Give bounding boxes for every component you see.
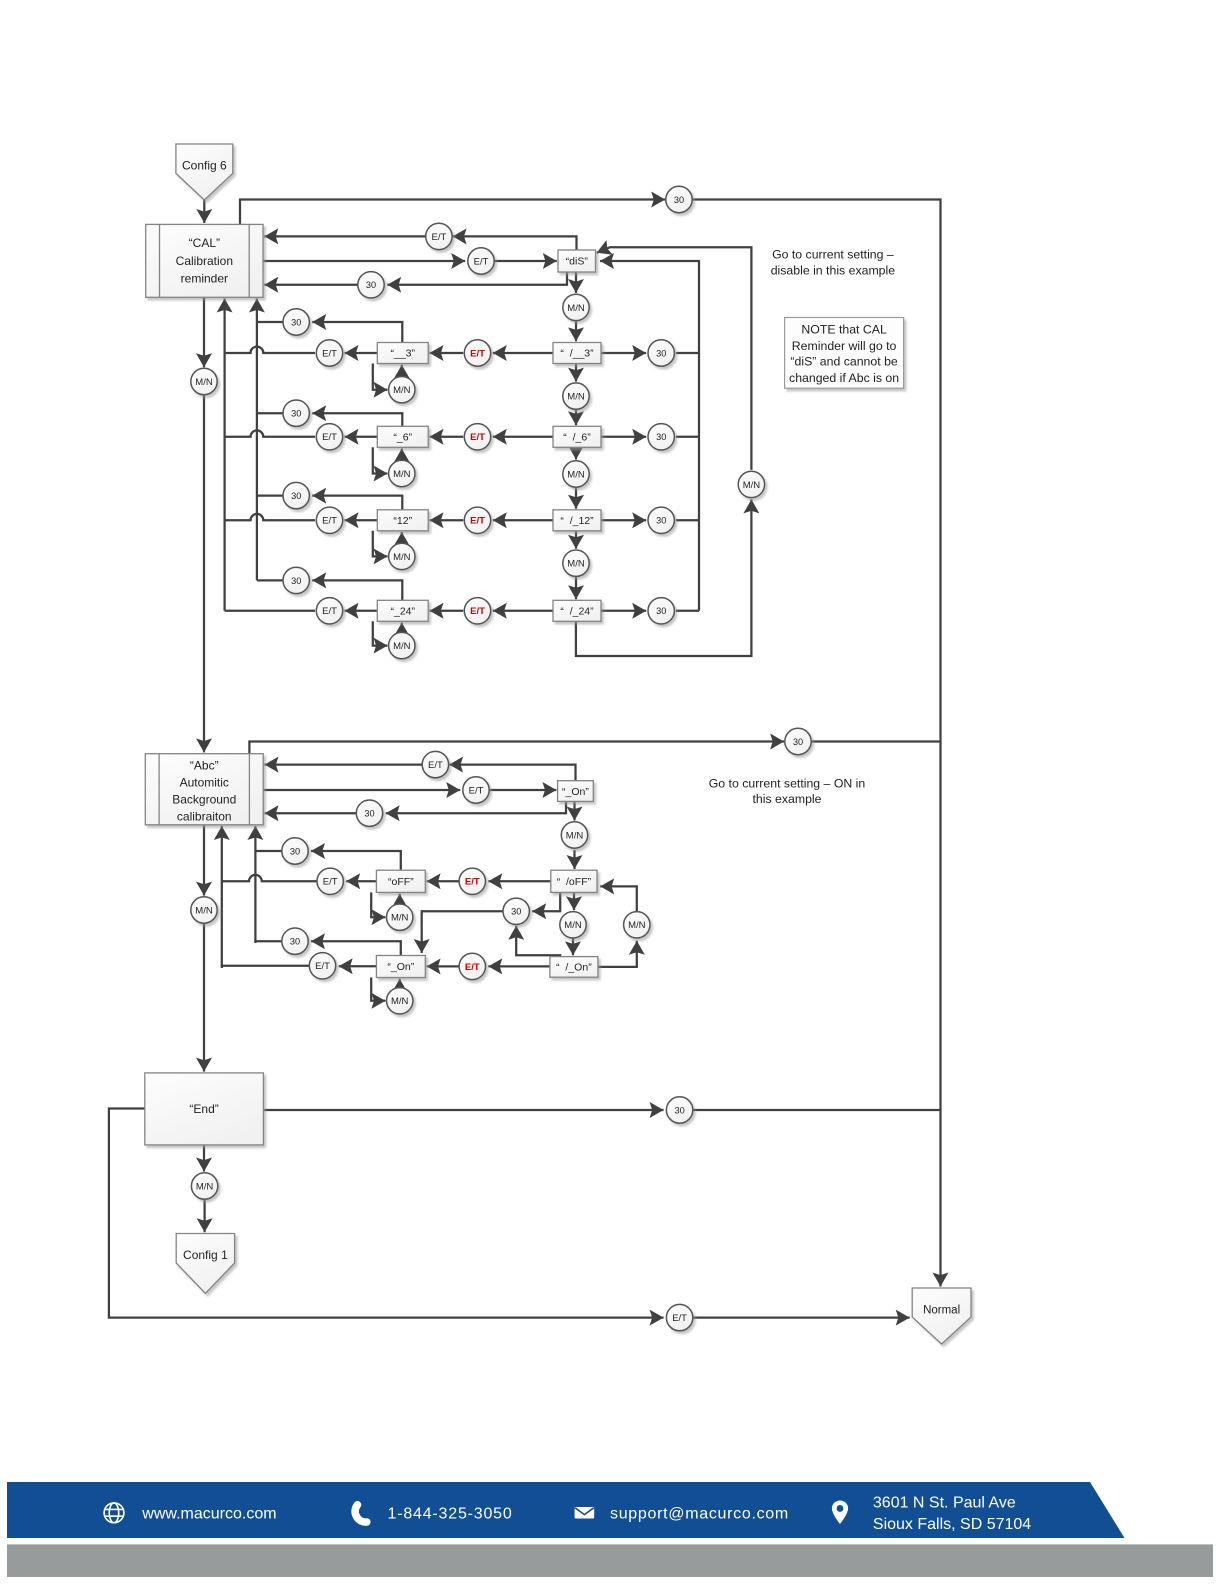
- wire red E/T into box “__3” row1: [430, 352, 464, 354]
- wire 30 right, down right margin to Normal: [693, 200, 941, 1287]
- state box "_24": [377, 600, 428, 621]
- annotation: go to current setting (ON): [709, 776, 866, 805]
- wire 30 collector up into CAL bottom: [256, 299, 258, 581]
- svg-text:“Abc”: “Abc”: [190, 758, 219, 772]
- wire E/T circle into Normal: [693, 1316, 910, 1318]
- wire E/T circle into diS: [495, 260, 557, 262]
- svg-text:E/T: E/T: [465, 962, 480, 973]
- svg-text:calibraiton: calibraiton: [177, 810, 232, 824]
- wire 30 circle to right margin line: [693, 1109, 940, 1111]
- wire 30 circle into CAL right edge: [264, 284, 357, 286]
- svg-text:30: 30: [656, 516, 666, 526]
- wire M/N down into /_On box: [572, 938, 574, 955]
- node E/T (Abc to _On): [463, 777, 489, 803]
- wire 30 circle row3 to 30 collector: [257, 494, 283, 496]
- svg-text:30: 30: [656, 348, 666, 358]
- svg-text:30: 30: [291, 409, 301, 419]
- wire /oFF to red E/T: [488, 880, 551, 882]
- node 30 row3 (timeout to CAL): [283, 482, 309, 508]
- footer mail icon: [575, 1507, 595, 1519]
- wire self M/N up into box “12” row3: [401, 532, 403, 543]
- wire 30 circle into Abc right edge: [265, 812, 357, 814]
- wire End right to 30 circle: [263, 1109, 663, 1111]
- wire box “12” top to 30 circle row3: [312, 496, 402, 510]
- footer gray bar: [7, 1544, 1213, 1577]
- svg-text:E/T: E/T: [432, 232, 447, 243]
- node E/T row2 (red, select): [464, 424, 490, 450]
- wire oFF hook to self M/N: [371, 892, 385, 917]
- node E/T (_On back to Abc): [422, 751, 448, 777]
- wire box “&#160;&#160;/__3” down to chain M/N row1: [575, 364, 577, 382]
- process box "CAL" Calibration reminder: [146, 224, 263, 297]
- svg-text:M/N: M/N: [567, 303, 585, 314]
- svg-text:Reminder will go to: Reminder will go to: [792, 339, 897, 353]
- node E/T (diS back to CAL): [426, 223, 452, 249]
- node 30 (Abc timeout to Normal): [785, 728, 811, 754]
- wire End bottom to M/N: [203, 1145, 205, 1172]
- node 30 (End timeout): [666, 1097, 692, 1123]
- wire box “&#160;&#160;/_24” to red E/T row4: [493, 610, 553, 612]
- svg-text:“End”: “End”: [189, 1102, 218, 1116]
- wire Abc top up-right to 30 (timeout): [249, 742, 784, 754]
- wire self M/N up into box “__3” row1: [401, 365, 403, 377]
- svg-text:Calibration: Calibration: [176, 254, 233, 268]
- wire box “__3” to E/T circle row1: [345, 352, 378, 354]
- svg-text:30: 30: [290, 937, 300, 947]
- node E/T (End to Normal): [666, 1304, 692, 1330]
- svg-text:M/N: M/N: [567, 392, 585, 403]
- svg-text:M/N: M/N: [628, 920, 646, 931]
- svg-text:M/N: M/N: [564, 920, 582, 931]
- wire chain M/N down to next box row2: [575, 487, 577, 509]
- wire oFF top to 30 circle: [311, 851, 401, 870]
- wire chain M/N down to next box row3: [575, 576, 577, 599]
- wire E/T collector up into CAL bottom: [223, 299, 225, 611]
- state box "_On" (top): [558, 781, 594, 802]
- node E/T (CAL to diS): [468, 248, 494, 274]
- svg-text:“diS”: “diS”: [566, 256, 589, 268]
- svg-text:E/T: E/T: [465, 877, 480, 888]
- node M/N (/_6 to /_12): [563, 461, 589, 487]
- svg-text:Config 6: Config 6: [182, 159, 227, 173]
- node self M/N row3: [389, 543, 415, 569]
- wire E/T circle into CAL right edge: [264, 235, 425, 237]
- wire box “&#160;&#160;/_6” down to chain M/N row2: [575, 447, 577, 459]
- process box "End": [145, 1073, 264, 1145]
- wire box “&#160;&#160;/_12” down to chain M/N row3: [575, 531, 577, 549]
- svg-text:E/T: E/T: [322, 606, 337, 617]
- svg-text:E/T: E/T: [672, 1313, 687, 1324]
- wire E/T collector up into Abc bottom: [221, 826, 223, 966]
- wire red E/T into _On box: [427, 965, 459, 967]
- svg-text:“__3”: “__3”: [390, 348, 415, 360]
- svg-text:E/T: E/T: [323, 877, 338, 888]
- wire Abc bottom down to M/N: [203, 825, 205, 896]
- wire oFF box to E/T circle: [346, 880, 376, 882]
- state box "12": [377, 510, 428, 531]
- wire box “12” hook to self M/N row3: [373, 531, 388, 557]
- wire E/T circle row1 to E/T collector (hop): [225, 347, 315, 353]
- wire self M/N up into _On box: [399, 979, 401, 988]
- node 30 row4 (timeout to diS): [648, 598, 674, 624]
- off-page connector Config 6: [176, 144, 233, 200]
- svg-text:NOTE that CAL: NOTE that CAL: [801, 322, 887, 336]
- wire box “_6” top to 30 circle row2: [312, 413, 402, 426]
- wire self M/N up into oFF box: [399, 894, 401, 904]
- wire chain M/N down to next box row1: [575, 409, 577, 425]
- svg-text:E/T: E/T: [474, 256, 489, 267]
- state box "diS": [558, 250, 596, 272]
- svg-text:30: 30: [674, 195, 684, 205]
- wire CAL top up-right to 30 (timeout): [240, 200, 665, 225]
- svg-text:Background: Background: [172, 793, 236, 807]
- wire M/N up and into diS top-right corner: [597, 247, 752, 470]
- svg-text:M/N: M/N: [393, 469, 411, 480]
- node E/T (lower _On to Abc): [309, 953, 335, 979]
- wire /_On right loop up to M/N: [598, 941, 637, 967]
- node M/N (/oFF to /_On): [560, 912, 586, 938]
- wire CAL out to E/T circle: [263, 260, 465, 262]
- svg-text:M/N: M/N: [566, 830, 584, 841]
- state box " /_12": [553, 510, 601, 531]
- svg-text:“oFF”: “oFF”: [388, 876, 414, 888]
- svg-text:E/T: E/T: [469, 785, 484, 796]
- svg-text:www.macurco.com: www.macurco.com: [141, 1505, 276, 1522]
- wire M/N up into /oFF right edge: [600, 886, 637, 911]
- svg-text:“ /__3”: “ /__3”: [560, 348, 594, 360]
- svg-text:M/N: M/N: [567, 469, 585, 480]
- wire Abc out to E/T circle: [263, 789, 460, 791]
- wire box “&#160;&#160;/_6” to red E/T row2: [493, 436, 553, 438]
- wire box “_24” top to 30 circle row4: [312, 580, 402, 600]
- state box "_On" (lower): [376, 956, 425, 978]
- state box "oFF": [376, 870, 425, 892]
- wire E/T circle to E/T collector corner: [222, 966, 309, 968]
- wire 30 circle row4 to 30 collector corner: [257, 579, 283, 581]
- svg-text:E/T: E/T: [470, 348, 485, 359]
- wire mid 30 into _On box top: [422, 911, 503, 953]
- state box " /oFF": [551, 870, 597, 892]
- svg-text:E/T: E/T: [470, 432, 485, 443]
- wire diS bottom hook to 30 circle: [387, 272, 567, 285]
- svg-text:E/T: E/T: [322, 516, 337, 527]
- node M/N (/_12 to /_24): [563, 550, 589, 576]
- svg-text:M/N: M/N: [195, 905, 213, 916]
- node 30 (diS timeout to CAL): [358, 272, 384, 298]
- wire box “&#160;&#160;/_12” to red E/T row3: [493, 519, 553, 521]
- node self M/N (lower _On): [387, 988, 413, 1014]
- svg-text:30: 30: [291, 491, 301, 501]
- wire box “&#160;&#160;/_24” to right 30 row4: [601, 610, 646, 612]
- node 30 (mid, to _On): [503, 898, 529, 924]
- svg-text:“ /_On”: “ /_On”: [556, 962, 592, 974]
- wire E/T circle into Abc right edge: [265, 763, 422, 765]
- wire red E/T into box “12” row3: [430, 519, 464, 521]
- node M/N (Abc to End): [191, 897, 217, 923]
- annotation: go to current setting (disable): [771, 247, 896, 277]
- wire M/N down into /oFF box: [573, 850, 575, 869]
- state box "_6": [377, 426, 428, 447]
- node E/T row4 (red, select): [464, 598, 490, 624]
- wire box “&#160;&#160;/_12” to right 30 row3: [601, 519, 646, 521]
- svg-text:M/N: M/N: [391, 913, 409, 924]
- svg-text:E/T: E/T: [322, 348, 337, 359]
- wire right 30 row2 to right collector: [676, 436, 699, 438]
- node M/N (CAL to Abc): [191, 368, 217, 394]
- wire E/T circle into _On box: [490, 789, 557, 791]
- node E/T row4 (to CAL): [316, 598, 342, 624]
- node 30 row2 (timeout to diS): [648, 424, 674, 450]
- svg-text:changed if Abc is on: changed if Abc is on: [789, 371, 899, 385]
- svg-text:“CAL”: “CAL”: [189, 236, 220, 250]
- node 30 (_On timeout to Abc): [356, 800, 382, 826]
- wire _On bottom hook to 30 circle: [386, 801, 566, 813]
- wire 30 circle to 30 collector corner: [255, 941, 281, 943]
- wire red E/T into box “_6” row2: [430, 436, 464, 438]
- wire 30 collector up into Abc bottom: [254, 826, 256, 941]
- svg-text:support@macurco.com: support@macurco.com: [610, 1505, 789, 1522]
- svg-text:Go to current setting – ON in: Go to current setting – ON in: [709, 776, 866, 790]
- off-page connector Normal: [912, 1288, 971, 1344]
- svg-text:E/T: E/T: [428, 760, 443, 771]
- wire Abc 30 to right margin line: [812, 740, 941, 742]
- wire M/N down to Config 1: [203, 1200, 205, 1233]
- node 30 (lower _On timeout): [282, 928, 308, 954]
- node 30 row1 (timeout to diS): [648, 340, 674, 366]
- svg-text:disable in this example: disable in this example: [771, 264, 896, 278]
- svg-text:E/T: E/T: [315, 961, 330, 972]
- node 30 row1 (timeout to CAL): [283, 309, 309, 335]
- svg-text:Config 1: Config 1: [183, 1248, 228, 1262]
- state box " /__3": [553, 343, 601, 364]
- node E/T (oFF to Abc): [317, 868, 343, 894]
- svg-text:30: 30: [511, 907, 521, 917]
- svg-text:Go to current setting –: Go to current setting –: [772, 247, 894, 261]
- wire 30 circle row1 to 30 collector: [257, 321, 283, 323]
- svg-text:30: 30: [656, 606, 666, 616]
- state box "__3": [377, 343, 428, 364]
- svg-text:M/N: M/N: [393, 385, 411, 396]
- node E/T row3 (to CAL): [316, 507, 342, 533]
- svg-text:30: 30: [674, 1105, 684, 1115]
- state box " /_24": [553, 600, 601, 621]
- svg-text:M/N: M/N: [393, 552, 411, 563]
- state box " /_6": [553, 426, 601, 447]
- wire box “__3” top to 30 circle row1: [312, 322, 402, 343]
- svg-text:30: 30: [366, 280, 376, 290]
- node E/T row2 (to CAL): [316, 424, 342, 450]
- wire M/N down to Abc box top: [203, 395, 205, 753]
- svg-text:“ /oFF”: “ /oFF”: [557, 876, 592, 888]
- footer blue banner: [7, 1482, 1125, 1538]
- node 30 (oFF timeout): [282, 838, 308, 864]
- svg-text:E/T: E/T: [470, 516, 485, 527]
- wire _On down to M/N: [573, 801, 575, 820]
- wire CAL bottom down to M/N: [203, 297, 205, 367]
- wire self M/N up into box “_6” row2: [401, 449, 403, 461]
- node E/T (red, select _On): [459, 953, 485, 979]
- svg-text:“ /_24”: “ /_24”: [560, 606, 594, 618]
- node M/N (diS to /__3): [563, 294, 589, 320]
- footer phone icon: [355, 1505, 367, 1522]
- wire _On hook to self M/N: [371, 978, 385, 1001]
- svg-text:“12”: “12”: [393, 515, 412, 527]
- wire Config 6 to CAL box: [203, 200, 205, 223]
- state box " /_On": [550, 957, 598, 978]
- svg-text:“_On”: “_On”: [562, 786, 589, 798]
- wire /_On to red E/T: [488, 965, 550, 967]
- wire E/T circle to E/T collector (hop): [222, 875, 317, 881]
- node E/T row1 (red, select): [464, 340, 490, 366]
- svg-text:reminder: reminder: [181, 272, 228, 286]
- wire E/T circle row2 to E/T collector (hop): [225, 430, 315, 436]
- svg-text:“ /_6”: “ /_6”: [563, 432, 591, 444]
- svg-text:Automitic: Automitic: [180, 775, 229, 789]
- wire box “_24” hook to self M/N row4: [373, 621, 388, 645]
- wire right 30 row1 to right collector: [676, 352, 699, 354]
- wire End left down to E/T circle: [109, 1109, 664, 1318]
- wire _On top to E/T circle: [449, 765, 575, 781]
- node self M/N (oFF): [387, 904, 413, 930]
- wire 30 circle row2 to 30 collector: [257, 412, 283, 414]
- svg-text:this example: this example: [752, 792, 821, 806]
- svg-text:“_On”: “_On”: [387, 961, 414, 973]
- node 30 (top timeout to Normal): [666, 186, 692, 212]
- node self M/N row2: [389, 460, 415, 486]
- wire right 30 row4 to right collector: [676, 610, 699, 612]
- svg-text:E/T: E/T: [322, 432, 337, 443]
- wire _On box to E/T circle: [339, 965, 377, 967]
- wire self M/N up into box “_24” row4: [401, 623, 403, 633]
- node E/T (red, select oFF): [459, 868, 485, 894]
- svg-text:“diS” and cannot be: “diS” and cannot be: [790, 355, 897, 369]
- svg-text:30: 30: [290, 846, 300, 856]
- svg-text:“_6”: “_6”: [393, 432, 412, 444]
- wire box “_6” to E/T circle row2: [345, 436, 378, 438]
- svg-text:“ /_12”: “ /_12”: [560, 515, 594, 527]
- process box "Abc" Automitic Background calibraiton: [145, 754, 263, 825]
- footer globe icon: [104, 1503, 124, 1523]
- wire box “12” to E/T circle row3: [345, 519, 378, 521]
- wire box “&#160;&#160;/__3” to red E/T row1: [493, 352, 553, 354]
- node E/T row3 (red, select): [464, 507, 490, 533]
- wire red E/T into oFF box: [427, 880, 459, 882]
- wire box “&#160;&#160;/_6” to right 30 row2: [601, 436, 646, 438]
- off-page connector Config 1: [176, 1234, 234, 1294]
- wire /_On top to mid 30 bottom: [516, 926, 560, 957]
- wire _On top to 30 circle: [311, 941, 401, 955]
- wire M/N down into box /__3: [575, 321, 577, 341]
- wire box “__3” hook to self M/N row1: [373, 364, 388, 390]
- svg-text:M/N: M/N: [391, 996, 409, 1007]
- svg-text:30: 30: [291, 317, 301, 327]
- node M/N (/_On to /oFF): [624, 912, 650, 938]
- wire box “_6” hook to self M/N row2: [373, 447, 388, 473]
- svg-text:M/N: M/N: [743, 480, 761, 491]
- node M/N (/__3 to /_6): [563, 383, 589, 409]
- wire right 30 row3 to right collector: [676, 519, 699, 521]
- svg-text:E/T: E/T: [470, 606, 485, 617]
- svg-text:3601 N St. Paul Ave: 3601 N St. Paul Ave: [873, 1494, 1016, 1511]
- wire box “&#160;&#160;/__3” to right 30 row1: [601, 352, 646, 354]
- node self M/N row1: [389, 377, 415, 403]
- svg-text:Sioux Falls, SD 57104: Sioux Falls, SD 57104: [873, 1516, 1031, 1533]
- node E/T row1 (to CAL): [316, 340, 342, 366]
- svg-text:30: 30: [364, 809, 374, 819]
- wire red E/T into box “_24” row4: [430, 610, 464, 612]
- wire /oFF bottom hook to mid 30: [532, 892, 560, 911]
- footer location pin icon: [832, 1501, 848, 1525]
- svg-text:1-844-325-3050: 1-844-325-3050: [388, 1505, 513, 1522]
- svg-text:M/N: M/N: [195, 377, 213, 388]
- svg-text:Normal: Normal: [923, 1305, 960, 1317]
- wire /_24 bottom hook up to M/N: [576, 499, 752, 656]
- svg-text:30: 30: [656, 432, 666, 442]
- annotation NOTE box: [785, 318, 904, 389]
- svg-text:30: 30: [793, 737, 803, 747]
- svg-text:M/N: M/N: [393, 641, 411, 652]
- svg-text:M/N: M/N: [567, 559, 585, 570]
- wire 30 circle to 30 collector: [255, 850, 281, 852]
- wire M/N down to End box: [203, 924, 205, 1072]
- node 30 row4 (timeout to CAL): [283, 567, 309, 593]
- wire E/T circle row3 to E/T collector (hop): [225, 514, 315, 520]
- node 30 row3 (timeout to diS): [648, 507, 674, 533]
- wire diS down to M/N: [575, 272, 577, 293]
- wire /oFF down to M/N: [573, 892, 575, 910]
- svg-text:M/N: M/N: [196, 1181, 214, 1192]
- wire box “_24” to E/T circle row4: [345, 610, 378, 612]
- node M/N (_On to /oFF): [561, 822, 587, 848]
- svg-text:30: 30: [291, 576, 301, 586]
- wire E/T circle row4 to E/T collector: [225, 610, 315, 612]
- wire diS top to E/T circle: [453, 236, 577, 250]
- wire right 30-collector up into diS right edge: [600, 261, 699, 611]
- node self M/N row4: [389, 632, 415, 658]
- node 30 row2 (timeout to CAL): [283, 400, 309, 426]
- node M/N (End to Config 1): [191, 1173, 217, 1199]
- svg-text:“_24”: “_24”: [390, 606, 415, 618]
- node M/N (/_24 up to diS): [738, 471, 764, 497]
